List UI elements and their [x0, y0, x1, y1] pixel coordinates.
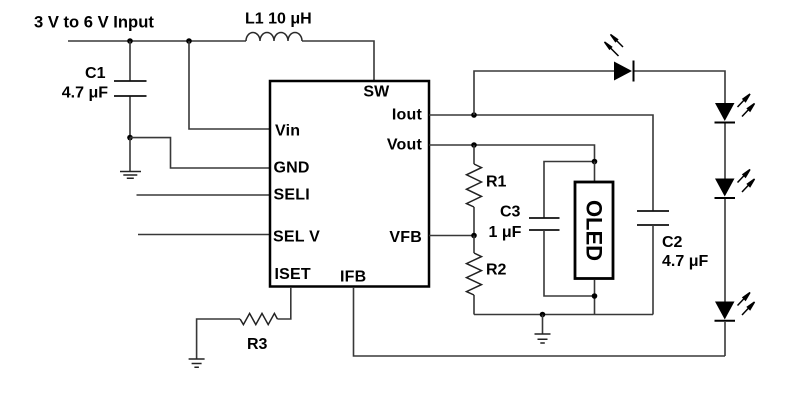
capacitor C2 — [637, 211, 669, 225]
wire D3 to D4 — [724, 199, 726, 302]
node Iout junction — [471, 112, 477, 118]
wire OLED top stem — [594, 162, 596, 182]
wire C3 bottom to OLED bottom — [544, 230, 595, 296]
LED D1 horizontal — [614, 61, 634, 82]
svg-text:R2: R2 — [486, 262, 507, 279]
wire D4 to bottom rail — [724, 322, 726, 356]
ground below R3 — [189, 359, 205, 367]
node ground junction — [540, 312, 546, 318]
resistor R1 — [467, 145, 482, 236]
wire C2 bottom — [652, 225, 654, 315]
svg-text:Iout: Iout — [392, 107, 423, 124]
wire C1 to ground — [129, 138, 131, 171]
wire D1 to right column — [635, 71, 726, 103]
inductor L1 — [246, 33, 302, 42]
svg-text:ISET: ISET — [275, 266, 311, 283]
OLED panel box — [575, 182, 613, 279]
node OLED bottom junction — [592, 293, 598, 299]
op-amp U1 IC box — [270, 81, 429, 287]
wire GND pin — [130, 138, 271, 168]
svg-text:3 V to 6 V Input: 3 V to 6 V Input — [34, 13, 154, 32]
LED D1 light arrows — [605, 35, 624, 57]
ground below rail — [535, 315, 551, 344]
svg-text:SW: SW — [363, 84, 390, 101]
svg-text:GND: GND — [274, 160, 310, 177]
wire D2 to D3 — [724, 124, 726, 179]
wire OLED bottom stem — [594, 280, 596, 315]
svg-text:R1: R1 — [486, 174, 507, 191]
LED D3 light arrows — [738, 170, 755, 193]
wire R3 to ground — [197, 319, 240, 359]
node C1 bottom junction — [127, 135, 133, 141]
svg-text:Vin: Vin — [275, 123, 300, 140]
svg-text:L1 10 μH: L1 10 μH — [245, 11, 312, 28]
LED D3 — [715, 179, 736, 199]
node OLED top junction — [592, 159, 598, 165]
svg-text:1 μF: 1 μF — [489, 224, 522, 241]
node Vin junction — [186, 38, 192, 44]
wire bottom rail to IFB — [354, 287, 726, 356]
LED D4 — [715, 302, 736, 321]
svg-text:IFB: IFB — [340, 269, 366, 286]
wire VFB — [429, 235, 474, 237]
node input junction — [127, 38, 133, 44]
capacitor C1 — [114, 41, 147, 138]
resistor R2 — [467, 236, 482, 315]
LED D4 light arrows — [738, 293, 755, 316]
wire Vout — [429, 145, 595, 162]
wire ISET stem — [277, 287, 290, 319]
svg-text:C2: C2 — [662, 234, 683, 251]
svg-text:VFB: VFB — [389, 229, 422, 246]
wire SEL V pin — [138, 234, 271, 236]
capacitor C3 — [529, 218, 560, 230]
svg-text:OLED: OLED — [582, 200, 607, 261]
svg-text:SELI: SELI — [274, 187, 310, 204]
wire Vin pin — [189, 41, 271, 129]
svg-text:4.7 μF: 4.7 μF — [62, 85, 108, 102]
wire Iout up to LED row — [474, 71, 614, 115]
svg-text:C3: C3 — [500, 204, 521, 221]
resistor R3 — [240, 313, 277, 324]
node VFB junction — [471, 233, 477, 239]
wire Vout branch to C3 — [544, 162, 595, 219]
svg-text:C1: C1 — [85, 65, 106, 82]
svg-text:Vout: Vout — [387, 137, 423, 154]
wire ground rail R2 to C2 — [474, 314, 653, 316]
wire Iout to C2 — [429, 115, 653, 211]
svg-text:R3: R3 — [247, 336, 268, 353]
wire input top rail — [68, 41, 374, 81]
LED D2 light arrows — [738, 94, 755, 117]
svg-text:SEL V: SEL V — [273, 229, 320, 246]
node Vout junction — [471, 142, 477, 148]
ground below C1 — [120, 172, 141, 179]
LED D2 — [715, 103, 736, 123]
wire SELI pin — [137, 194, 271, 196]
svg-text:4.7 μF: 4.7 μF — [662, 253, 708, 270]
